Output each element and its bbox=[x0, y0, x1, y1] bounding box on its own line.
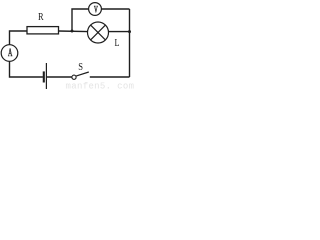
svg-text:S: S bbox=[78, 61, 83, 73]
junction node at lamp wire / right edge bbox=[128, 30, 131, 33]
svg-text:A: A bbox=[8, 47, 12, 60]
switch S: pivot circle bbox=[72, 75, 76, 79]
svg-text:L: L bbox=[115, 38, 120, 49]
wire top-left: resistor to left edge and down to ammeter bbox=[10, 31, 28, 45]
battery cell: short thick plate (left) bbox=[43, 71, 45, 82]
lamp L bbox=[88, 22, 109, 43]
resistor R bbox=[27, 27, 59, 34]
battery cell: long thin plate (right) bbox=[45, 63, 47, 89]
wire: bottom left (left edge to battery) bbox=[10, 61, 43, 77]
junction node at voltmeter branch bbox=[71, 30, 74, 33]
ammeter A bbox=[1, 45, 18, 62]
switch S: blade bbox=[76, 72, 89, 76]
voltmeter V bbox=[89, 3, 102, 16]
svg-text:manfen5. com: manfen5. com bbox=[66, 82, 135, 92]
wire: lamp right to right edge bbox=[108, 31, 129, 33]
wire: battery right plate to switch pivot bbox=[46, 76, 71, 78]
wire: right edge vertical bbox=[129, 9, 131, 77]
svg-text:R: R bbox=[38, 11, 44, 23]
svg-text:V: V bbox=[94, 4, 98, 15]
wire: voltmeter branch vertical and horizontal bbox=[72, 9, 89, 31]
wire: bottom right (right edge to switch) bbox=[90, 76, 130, 78]
wire: resistor right to lamp left bbox=[59, 30, 88, 33]
wire: voltmeter right to top-right corner bbox=[101, 8, 129, 10]
